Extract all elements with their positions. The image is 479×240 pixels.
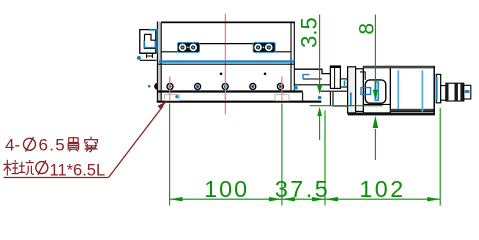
tail below 3.5 arrow <box>319 116 321 140</box>
leader arrowhead <box>158 101 167 109</box>
bottom plate bottom edge <box>157 101 321 103</box>
body left edge band <box>157 22 161 103</box>
extension line at x=169.6 <box>169 104 171 206</box>
blue edge on end cap <box>436 76 438 100</box>
slot line right of right block <box>275 51 291 53</box>
svg-text:8: 8 <box>356 23 379 35</box>
motor under plate <box>348 113 435 116</box>
slot line left of left block <box>161 51 177 53</box>
blue vertex dot at bracket lower-left <box>137 56 141 60</box>
bottom plate cutout right (gray) <box>275 95 289 101</box>
body top edge <box>157 22 295 24</box>
diameter symbol 2 <box>36 162 48 174</box>
arrow pair at x=281.9 <box>269 197 282 201</box>
centerline overlays through holes (red) <box>170 78 282 101</box>
blue vertex at right body edge bottom <box>294 86 298 89</box>
blue vertex dot left of nub <box>148 85 151 88</box>
svg-text:37.5: 37.5 <box>275 176 330 202</box>
body right edge <box>290 22 292 90</box>
svg-text:3.5: 3.5 <box>297 17 322 48</box>
arrow left of 100 <box>170 197 183 201</box>
centerline through hole 1 (red) <box>169 77 171 102</box>
blue vertex dot near left cutout <box>175 95 178 98</box>
table bottom highlighted edge (blue) <box>159 60 294 62</box>
blue dot on 3.5 dim <box>318 96 322 100</box>
vertical dim line 3.5 <box>319 15 321 86</box>
extension line at x=440.2 <box>439 108 441 206</box>
connector ribbed body <box>446 83 464 101</box>
connector neck <box>441 86 446 101</box>
motor right end edge <box>433 66 435 115</box>
connector rib 3 <box>460 83 463 101</box>
svg-text:11*6.5L: 11*6.5L <box>50 161 106 179</box>
diameter symbol 1 <box>24 138 36 150</box>
motor flange plate 2 <box>356 69 364 112</box>
motor front housing <box>363 66 390 113</box>
dimension line y=199.2 <box>170 198 441 200</box>
blue notch on bracket <box>303 75 310 79</box>
sensor block left <box>178 43 200 53</box>
coupling tab <box>340 79 347 87</box>
glyph 坑 (strokes) <box>18 160 33 175</box>
annotation text line 1: 4-Ø6.5 + CJK <box>5 135 66 154</box>
tail below 8 arrow <box>374 129 376 160</box>
base bottom thick line <box>157 90 303 92</box>
svg-text:102: 102 <box>359 176 405 202</box>
motor flange plate 1 <box>348 67 356 113</box>
left limit-sensor bracket <box>140 30 158 61</box>
leader line <box>109 106 164 178</box>
centerline through hole 3 (red) <box>224 14 226 115</box>
highlighted shaft bar in window <box>375 82 379 101</box>
dowel dot left <box>220 73 223 76</box>
motor body top band <box>363 66 434 68</box>
blue edge on flange lower part <box>350 92 352 106</box>
blue clamp outline <box>361 88 371 95</box>
rail top line between sensor blocks <box>200 43 254 45</box>
sensor block right <box>253 43 275 53</box>
underline <box>4 177 109 179</box>
extension line at x=325 <box>324 111 326 206</box>
horizontal extension line under brackets <box>310 105 383 107</box>
glyph 穿 (strokes) <box>85 137 98 152</box>
vertical dim line 8 <box>374 15 376 91</box>
connector rib 2 <box>455 83 458 101</box>
glyph 貫 (strokes) <box>68 137 78 152</box>
left face nub (half circle) <box>154 83 157 90</box>
blue mark in connector tip <box>465 90 470 93</box>
connector tip <box>464 85 471 99</box>
svg-text:4-: 4- <box>5 135 20 154</box>
front housing bottom line <box>363 103 390 105</box>
blue edge in coupling tab <box>344 80 346 85</box>
8 upper arrow (down) <box>373 90 378 100</box>
mounting holes row <box>167 84 283 90</box>
arrow right of 102 <box>427 197 440 201</box>
base top line <box>157 63 294 65</box>
motor body bottom band <box>390 109 434 112</box>
coupling housing block <box>330 66 347 88</box>
motor end cap <box>436 74 440 102</box>
glyph 柱 (strokes) <box>3 160 18 176</box>
motor body blue edge 2 <box>421 70 423 112</box>
motor body blue edge 1 <box>397 70 399 108</box>
8 lower arrow (up) <box>373 116 379 128</box>
stage body outline <box>157 22 321 103</box>
svg-text:100: 100 <box>204 176 249 202</box>
svg-text:6.5: 6.5 <box>39 135 67 154</box>
motor mount bracket (right of body) <box>294 69 348 106</box>
centerline through hole 5 (red) <box>281 77 283 102</box>
bottom plate cutout left (gray) <box>164 95 179 101</box>
front housing step <box>360 72 365 80</box>
dim arrows (green) <box>170 85 440 202</box>
connector rib 1 <box>446 83 449 101</box>
3.5 lower arrow (up) <box>317 107 322 116</box>
motor body <box>390 66 434 111</box>
dowel dot right <box>264 73 267 76</box>
3.5 upper arrow (down) <box>317 85 322 95</box>
shaft window (rounded) <box>365 80 386 103</box>
arrow pair at x=325 <box>312 197 325 201</box>
extension line at x=281.9 <box>281 104 283 206</box>
